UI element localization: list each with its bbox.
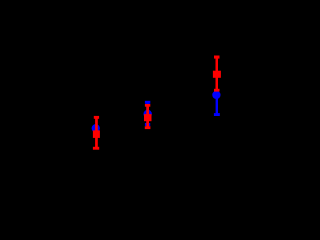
red errorbar line, point 1 (95, 117, 98, 148)
red errorbar line, point 3 (216, 57, 219, 91)
red top cap, point 1 (94, 116, 99, 119)
blue errorbar line, point 3 (216, 95, 218, 115)
blue bottom cap, point 2 (145, 123, 150, 126)
blue bottom cap, point 3 (214, 113, 220, 116)
red errorbar line, point 2 (146, 105, 149, 127)
red square marker, point 3 (213, 71, 221, 78)
blue circle marker, point 1 (92, 124, 100, 132)
red top cap, point 2 (145, 104, 150, 107)
red bottom cap, point 1 (93, 147, 99, 150)
blue top cap, point 2 (145, 101, 150, 104)
red square marker, point 1 (93, 130, 100, 138)
blue circle marker, point 3 (212, 91, 220, 99)
red bottom cap, point 2 (145, 126, 151, 129)
red bottom cap, point 3 (214, 89, 220, 92)
red top cap, point 3 (214, 56, 220, 59)
red square marker, point 2 (144, 114, 152, 121)
blue circle marker, point 2 (144, 110, 152, 118)
blue errorbar line, point 2 (146, 102, 149, 124)
